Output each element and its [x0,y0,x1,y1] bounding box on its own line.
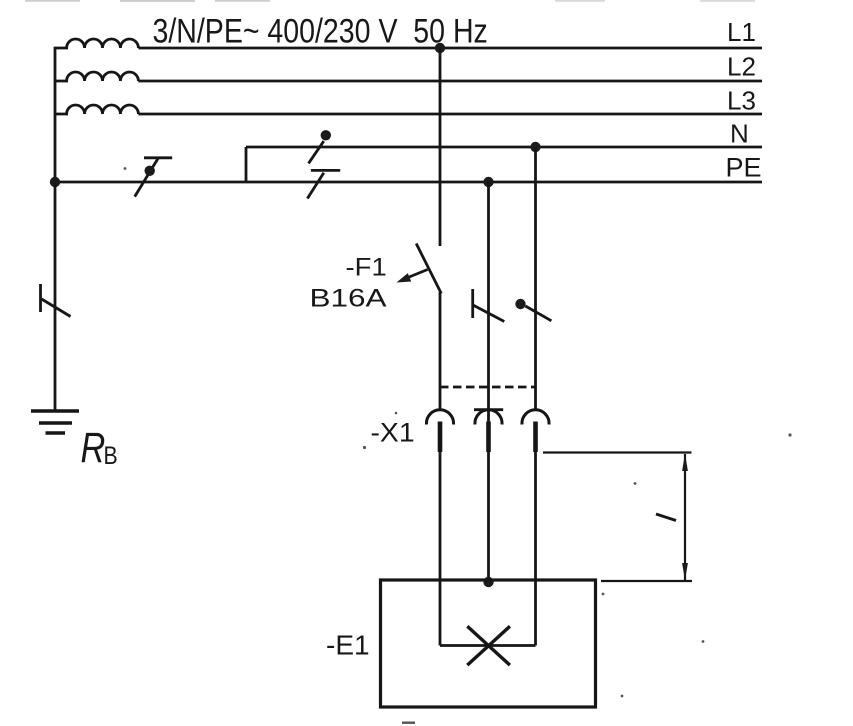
wire earthing conductor [54,182,57,411]
dimension line with arrows [682,454,688,581]
wire L1 [138,47,762,50]
wire lamp link [440,644,536,647]
dimension extension line top [543,451,692,453]
wire PE [55,181,762,184]
junction PE on luminaire [483,577,493,587]
protective conductor mark on PE drop [473,289,505,322]
mechanical linkage dashed [440,386,536,389]
PEN conductor mark on PE bus [135,158,173,197]
dimension extension line bottom [601,580,692,582]
dimension tick [656,514,676,521]
wire L1 drop [439,48,442,246]
neutral conductor mark on N drop [515,299,551,321]
wire F1 to socket [439,292,442,410]
transformer winding L1 [55,39,138,48]
svg-text:B16A: B16A [310,285,387,313]
svg-text:PE: PE [726,153,762,183]
svg-text:L1: L1 [727,17,756,47]
svg-text:B: B [104,441,118,469]
junction star point on PE [50,177,60,187]
wire N [246,146,762,149]
ground electrode RB [31,411,79,433]
wire N-PE bridge [245,147,248,182]
transformer winding L3 [55,105,138,114]
socket X1 pole 2 PE [474,410,503,452]
wire N to lamp [534,452,537,646]
wire L2 [138,80,762,83]
neutral conductor mark on N bus [309,130,331,163]
junction L1 tap [435,43,445,53]
wire PE to luminaire body [487,452,490,581]
luminaire E1 enclosure [381,580,596,707]
svg-text:N: N [730,119,749,149]
wire L3 [138,113,762,116]
svg-text:-E1: -E1 [326,630,370,661]
svg-text:L2: L2 [727,52,756,82]
leader arrow F1 [397,270,428,283]
lamp symbol E1 [467,626,510,665]
svg-text:-F1: -F1 [346,253,387,282]
protective conductor mark on earthing lead [41,284,71,317]
socket X1 pole 3 N [522,410,549,452]
circuit breaker F1 contact arm [416,244,441,294]
wire PE drop [487,182,490,422]
svg-text:R: R [81,424,106,471]
svg-text:L3: L3 [727,86,756,116]
wire N drop [534,147,537,410]
socket X1 pole 1 L [426,410,453,452]
protective conductor mark on PE bus [307,170,340,198]
junction PE tap [483,177,493,187]
svg-text:-X1: -X1 [371,417,415,447]
transformer winding L2 [55,72,138,81]
junction N tap [530,142,540,152]
wire L to lamp [439,452,442,646]
wire star point down-lead [54,47,57,182]
